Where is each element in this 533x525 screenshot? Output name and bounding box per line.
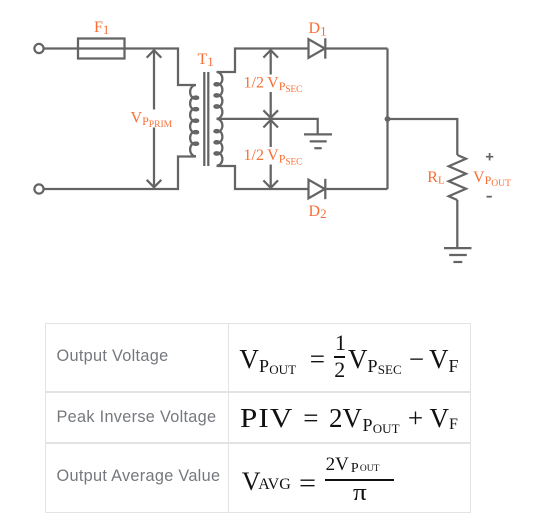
wire resistor to ground — [456, 200, 458, 247]
wire output to resistor — [388, 119, 458, 155]
transformer secondary lower winding — [214, 119, 222, 166]
junction node — [385, 116, 391, 122]
wire D2 to right rail — [325, 188, 387, 190]
wire top-left to fuse — [44, 47, 78, 49]
wire D1 to right rail — [325, 47, 387, 49]
wire secondary bottom lead — [217, 166, 309, 189]
formula output average value — [242, 469, 261, 495]
arrow VPPRIM — [147, 50, 162, 187]
wire secondary top lead — [217, 49, 309, 73]
formula peak inverse voltage — [240, 405, 293, 432]
svg-text:T1: T1 — [198, 51, 214, 69]
label white box 1/2VPSEC upper — [242, 75, 300, 93]
label plus — [486, 153, 493, 160]
transformer T1 primary winding — [190, 85, 198, 156]
table borders — [45, 323, 472, 324]
wire right rail — [386, 49, 388, 190]
label white box VPPRIM — [129, 110, 175, 128]
wire fuse to primary top corner — [125, 49, 197, 86]
wire bottom-left to primary bottom — [44, 157, 196, 190]
svg-text:D1: D1 — [309, 20, 327, 38]
svg-text:D2: D2 — [309, 203, 327, 221]
table row labels — [57, 348, 169, 364]
resistor RL — [449, 155, 466, 200]
label white box 1/2VPSEC lower — [242, 147, 300, 165]
label minus — [487, 196, 492, 198]
wire center tap to ground — [217, 119, 318, 134]
diode D2 — [309, 179, 326, 199]
svg-text:VPOUT: VPOUT — [473, 169, 511, 189]
ground (center tap) — [304, 134, 332, 148]
input terminal bottom — [34, 184, 43, 193]
arrow 1/2VPSEC lower — [263, 120, 278, 188]
diode D1 — [309, 38, 326, 58]
arrow 1/2VPSEC upper — [263, 50, 278, 118]
transformer core — [204, 72, 208, 166]
svg-text:RL: RL — [427, 169, 445, 187]
fuse F1 — [78, 39, 125, 59]
formula output voltage — [239, 346, 259, 373]
svg-text:F1: F1 — [94, 19, 109, 37]
input terminal top — [34, 44, 43, 53]
transformer secondary upper winding — [214, 72, 222, 119]
ground (output) — [444, 248, 472, 262]
